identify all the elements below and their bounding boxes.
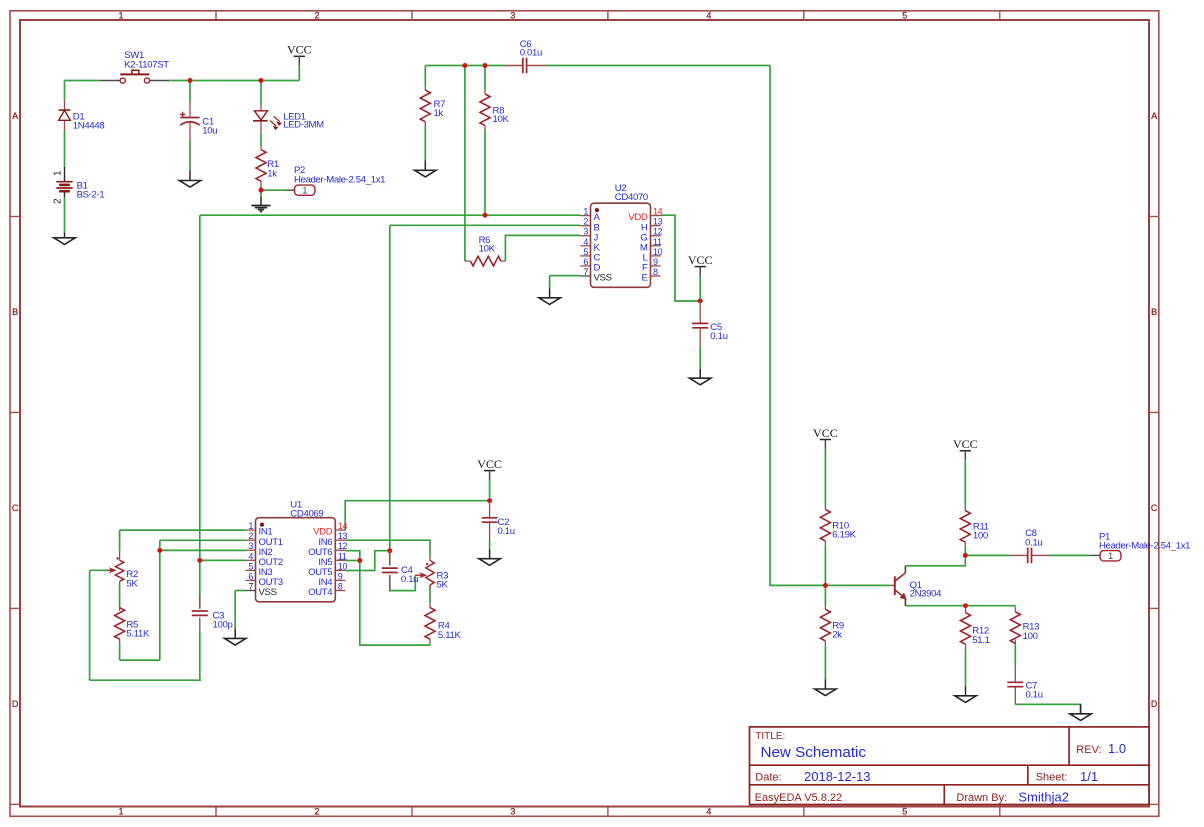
svg-text:5.11K: 5.11K: [126, 629, 150, 640]
power flag VCC (R11): [953, 437, 978, 460]
wire U1 IN2 (pin3): [160, 549, 246, 551]
resistor R10: [820, 507, 830, 546]
wire C7 bottom to ground: [1015, 704, 1080, 713]
resistor R6: [465, 256, 506, 266]
svg-text:VSS: VSS: [259, 587, 277, 598]
label SW1: [124, 50, 169, 70]
svg-text:VCC: VCC: [688, 253, 713, 267]
ground under U1 VSS: [225, 629, 246, 645]
svg-text:E: E: [641, 273, 647, 284]
connector P2: [286, 185, 315, 196]
wire x359.8 riser to R4 bottom: [360, 561, 430, 646]
ground under R7: [415, 160, 436, 177]
pin 11 (IN5): [318, 551, 346, 568]
pin 4 (OUT2): [245, 551, 282, 568]
pin 10 (OUT5): [308, 561, 347, 578]
wire VCC2 node to U1 VDD: [345, 501, 489, 530]
wire bottom link y680.2: [90, 679, 201, 681]
label R9: [832, 620, 844, 640]
pin 7 (VSS): [245, 582, 276, 599]
capacitor C7: [1007, 665, 1023, 704]
wire C4 bottom to R3 wiper: [390, 575, 416, 591]
svg-text:Header-Male-2.54_1x1: Header-Male-2.54_1x1: [294, 174, 385, 185]
junction (700.2,301): [698, 299, 703, 304]
wire C6 right to riser: [545, 65, 770, 67]
svg-text:CD4070: CD4070: [615, 192, 648, 203]
svg-text:1: 1: [302, 186, 307, 196]
pin 6 (OUT3): [245, 571, 282, 588]
pin 6 (D): [580, 257, 600, 274]
svg-text:6: 6: [583, 257, 588, 267]
svg-text:New Schematic: New Schematic: [761, 744, 867, 761]
svg-text:1: 1: [1108, 551, 1113, 561]
wire R9 top: [824, 585, 826, 605]
svg-text:2N3904: 2N3904: [910, 589, 943, 600]
junction (190,80.5): [188, 78, 193, 83]
pin 3 (J): [580, 227, 598, 244]
label R7: [434, 99, 446, 119]
svg-text:2: 2: [248, 531, 253, 541]
svg-text:5K: 5K: [126, 578, 138, 589]
pin 1 (IN1): [245, 521, 272, 538]
junction (965.5,605.7): [963, 603, 968, 608]
resistor R1: [256, 147, 266, 186]
svg-text:A: A: [1151, 111, 1157, 121]
pin 10 (L): [643, 247, 663, 264]
power flag VCC (R10): [813, 426, 838, 449]
capacitor C8: [1010, 548, 1049, 564]
capacitor C2: [482, 501, 498, 540]
switch SW1: [99, 70, 169, 83]
wire R6 left riser: [464, 66, 466, 262]
wire C1 column: [189, 81, 191, 171]
junction (485,215.2): [483, 213, 488, 218]
svg-text:K2-1107ST: K2-1107ST: [124, 59, 169, 70]
wire C8 right to P1: [1050, 554, 1090, 556]
svg-text:5: 5: [902, 11, 907, 21]
power flag VCC (U2/C5): [688, 253, 713, 276]
wire x159.8 riser: [159, 540, 161, 660]
svg-text:1: 1: [118, 11, 123, 21]
potentiometer R3: [415, 540, 434, 589]
label C6: [520, 39, 542, 59]
svg-text:EasyEDA V5.8.22: EasyEDA V5.8.22: [755, 792, 842, 804]
capacitor C1: [180, 102, 200, 140]
wire node to ground: [260, 190, 262, 196]
svg-text:6.19K: 6.19K: [832, 530, 856, 541]
wire R8 bottom to A-net: [484, 130, 486, 216]
pin 2 (B): [580, 217, 599, 234]
svg-text:1/1: 1/1: [1080, 769, 1098, 784]
wire R7 column: [424, 66, 426, 161]
pin 8 (OUT4): [308, 582, 345, 599]
label C5: [710, 322, 727, 342]
wire net B (U2 pin2) y225.3: [390, 224, 581, 226]
svg-text:VCC: VCC: [953, 437, 978, 451]
label U1: [290, 499, 323, 519]
wire B1 to ground: [64, 197, 66, 232]
svg-text:4: 4: [706, 807, 711, 817]
potentiometer R2: [107, 551, 124, 584]
wire VCC2 stem: [489, 480, 491, 500]
battery B1: [56, 167, 72, 197]
wire U1 IN6 (pin13): [345, 540, 430, 557]
svg-text:C: C: [12, 503, 19, 513]
IC U2 CD4070: [580, 203, 662, 287]
svg-text:10: 10: [653, 247, 663, 257]
resistor R5: [115, 607, 125, 643]
label P2: [294, 165, 385, 185]
wire C4 column: [389, 551, 391, 566]
label C3: [213, 610, 233, 630]
wire R6 right to U2 pin3: [505, 235, 580, 261]
svg-text:0.01u: 0.01u: [520, 47, 542, 58]
svg-text:4: 4: [706, 11, 711, 21]
label R10: [832, 520, 856, 540]
wire VCC4 stem: [964, 461, 966, 507]
junction (489.6,500.7): [487, 498, 492, 503]
wire U1 OUT5 (pin10): [345, 551, 389, 571]
pin 11 (M): [640, 237, 662, 254]
connector P1: [1089, 551, 1121, 561]
wire R4 bottom lead: [429, 643, 431, 645]
junction (485,65.5): [483, 63, 488, 68]
resistor R11: [960, 507, 970, 547]
svg-text:1.0: 1.0: [1108, 741, 1126, 756]
wire VCC5 stem: [699, 276, 701, 301]
svg-text:0.1u: 0.1u: [1025, 537, 1042, 548]
wire R9 bottom: [824, 646, 826, 679]
wire D1 to B1: [64, 130, 66, 167]
ground under B1: [54, 232, 75, 244]
LED LED1: [253, 104, 281, 134]
wire VCC3 stem: [824, 449, 826, 506]
svg-text:2: 2: [314, 11, 319, 21]
junction (261,190.2): [259, 188, 264, 193]
svg-text:10K: 10K: [479, 244, 496, 255]
svg-text:0.1u: 0.1u: [1026, 690, 1043, 701]
label R3: [437, 570, 449, 590]
wire riser x389.8: [389, 225, 391, 550]
wire out node down to collector: [905, 555, 965, 565]
label B1 pin 2: [53, 198, 64, 204]
power flag VCC (U1/C2): [477, 457, 502, 480]
wire R5 leads: [119, 584, 121, 660]
svg-text:Drawn By:: Drawn By:: [956, 792, 1007, 804]
svg-text:A: A: [12, 111, 18, 121]
pin 9 (IN4): [318, 571, 345, 588]
label R1: [267, 159, 279, 180]
svg-text:3: 3: [510, 11, 515, 21]
svg-text:10u: 10u: [202, 126, 217, 137]
power flag VCC (top rail): [287, 43, 312, 66]
svg-text:1: 1: [248, 521, 253, 531]
svg-text:1k: 1k: [434, 108, 444, 119]
svg-text:2k: 2k: [832, 630, 842, 641]
wire R10 bottom to base node: [824, 546, 826, 586]
svg-text:VCC: VCC: [477, 457, 502, 471]
wire U1 IN5 (pin11): [345, 560, 359, 562]
svg-text:D: D: [1151, 699, 1158, 709]
svg-text:100: 100: [1023, 631, 1038, 642]
svg-text:100p: 100p: [213, 620, 233, 631]
wire D1 top lead to rail: [64, 81, 66, 101]
label LED1: [283, 111, 324, 130]
svg-text:Header-Male-2.54_1x1: Header-Male-2.54_1x1: [1099, 541, 1190, 552]
wire VCC top rail y80.5: [65, 80, 300, 82]
svg-text:Smithja2: Smithja2: [1018, 789, 1069, 804]
wire R1 bottom to node: [260, 186, 262, 190]
svg-text:1k: 1k: [267, 169, 277, 180]
capacitor C3: [192, 560, 208, 631]
svg-text:1: 1: [53, 170, 64, 176]
pin 3 (IN2): [245, 541, 272, 558]
pin 1 (A): [580, 207, 600, 224]
svg-text:1: 1: [583, 207, 588, 217]
junction (464.9,65.5): [462, 63, 467, 68]
svg-text:3: 3: [248, 541, 253, 551]
svg-text:B: B: [1151, 307, 1157, 317]
svg-text:100: 100: [973, 531, 988, 542]
resistor R13: [1010, 608, 1020, 644]
svg-text:VSS: VSS: [594, 273, 612, 284]
junction (389.8,550.7): [387, 548, 392, 553]
svg-text:TITLE:: TITLE:: [755, 731, 785, 742]
wire riser x770 down to Q1 base: [770, 66, 889, 586]
wire U2 VDD to VCC node: [661, 215, 701, 301]
svg-text:Date:: Date:: [755, 772, 781, 784]
label C8: [1025, 528, 1042, 548]
wire U1 VSS: [235, 591, 245, 630]
wire R13 column: [1014, 606, 1016, 665]
label U2: [615, 183, 648, 203]
svg-text:2: 2: [583, 217, 588, 227]
pin 5 (C): [580, 247, 600, 264]
svg-text:5K: 5K: [437, 580, 449, 591]
ground right of C7: [1070, 704, 1091, 720]
svg-text:11: 11: [338, 551, 347, 561]
wire R11 bottom to out node: [964, 547, 966, 556]
wire LED1 column: [260, 81, 262, 147]
svg-text:5: 5: [583, 247, 588, 257]
svg-text:OUT4: OUT4: [308, 587, 333, 598]
wire U1 IN1 (pin1): [120, 529, 246, 531]
svg-text:9: 9: [653, 257, 658, 267]
diode D1: [59, 100, 71, 130]
svg-text:5.11K: 5.11K: [438, 630, 462, 641]
svg-text:51.1: 51.1: [972, 635, 989, 646]
svg-text:D: D: [12, 699, 19, 709]
pin 8 (E): [641, 267, 660, 284]
svg-text:0.1u: 0.1u: [498, 526, 515, 537]
title block: [750, 727, 1150, 805]
label P1: [1099, 531, 1190, 551]
wire U1 OUT1 (pin2): [160, 539, 246, 541]
pin 14 (VDD): [628, 207, 662, 224]
wire R2 top riser: [119, 530, 121, 551]
label R4: [438, 621, 462, 641]
label D1: [73, 111, 105, 131]
svg-text:13: 13: [338, 531, 348, 541]
svg-text:LED-3MM: LED-3MM: [283, 120, 324, 131]
wire R8 column top: [484, 66, 486, 91]
label B1: [77, 180, 105, 200]
pin 13 (H): [641, 217, 663, 234]
ground under U2 VSS: [539, 289, 560, 305]
svg-text:2: 2: [53, 198, 64, 204]
label Q1: [910, 580, 943, 600]
label R11: [973, 522, 989, 542]
pin 12 (OUT6): [308, 541, 347, 558]
label R5: [126, 619, 150, 639]
svg-text:6: 6: [248, 571, 253, 581]
wire R2 wiper feed: [90, 569, 108, 571]
pin 4 (K): [580, 237, 600, 254]
junction (359.8,560.5): [357, 558, 362, 563]
wire R3 column: [429, 585, 431, 603]
resistor R9: [820, 606, 830, 646]
svg-text:Sheet:: Sheet:: [1036, 772, 1068, 784]
svg-text:2018-12-13: 2018-12-13: [804, 769, 871, 784]
svg-text:REV:: REV:: [1076, 744, 1101, 756]
capacitor C5: [692, 301, 708, 346]
pin 13 (IN6): [318, 531, 347, 548]
svg-text:3: 3: [510, 807, 515, 817]
IC U1 CD4069: [245, 518, 347, 602]
junction (825.4,585.4): [823, 583, 828, 588]
svg-text:7: 7: [583, 267, 588, 277]
wire C3 column: [199, 560, 201, 680]
svg-text:1: 1: [118, 807, 123, 817]
wire riser x199.8: [199, 215, 201, 560]
svg-text:VCC: VCC: [813, 426, 838, 440]
wire U1 OUT2 (pin4): [200, 559, 246, 561]
svg-text:10K: 10K: [493, 114, 510, 125]
label B1 pin 1: [53, 170, 64, 176]
pin 14 (VDD): [313, 521, 347, 538]
capacitor C4: [382, 551, 398, 591]
wire node to P2: [261, 189, 286, 191]
wire net A (U2 pin1) y215.2: [200, 214, 581, 216]
resistor R12: [961, 606, 971, 649]
pin 7 (VSS): [580, 267, 611, 284]
svg-text:4: 4: [248, 551, 253, 561]
wire U1 OUT6 (pin12): [345, 551, 359, 561]
ground under R12: [955, 686, 976, 702]
wire out node to C8: [965, 554, 1010, 556]
wire R5 bottom link: [120, 659, 160, 661]
pin 9 (F): [642, 257, 661, 274]
svg-text:12: 12: [653, 227, 663, 237]
label R13: [1023, 622, 1040, 642]
svg-text:8: 8: [653, 267, 658, 277]
svg-text:C: C: [1151, 503, 1158, 513]
wire top net y65.5: [425, 65, 504, 67]
label R6: [479, 235, 496, 255]
label C4: [401, 565, 418, 585]
svg-text:VCC: VCC: [287, 43, 312, 57]
svg-text:2: 2: [314, 807, 319, 817]
svg-text:12: 12: [338, 541, 348, 551]
ground under C1: [179, 171, 200, 188]
resistor R7: [420, 86, 430, 125]
wire R12 bottom: [965, 649, 967, 686]
svg-text:8: 8: [338, 582, 343, 592]
svg-text:14: 14: [338, 521, 348, 531]
capacitor C6: [505, 58, 545, 74]
svg-text:7: 7: [248, 582, 253, 592]
resistor R4: [425, 603, 435, 643]
label R12: [972, 625, 989, 646]
ground under C5: [690, 369, 711, 385]
ground under C2: [479, 549, 500, 565]
label R8: [493, 105, 510, 125]
pin 12 (G): [640, 227, 662, 244]
junction (159.8,550.4): [157, 548, 162, 553]
wire C5 bottom: [699, 346, 701, 369]
svg-text:9: 9: [338, 571, 343, 581]
svg-text:1N4448: 1N4448: [73, 120, 105, 131]
label C7: [1026, 680, 1043, 700]
wire collector riser: [904, 566, 906, 573]
svg-text:4: 4: [583, 237, 588, 247]
svg-text:11: 11: [653, 237, 662, 247]
wire U2 VSS: [550, 276, 581, 289]
wire x89.6 riser: [89, 570, 91, 680]
svg-text:13: 13: [653, 217, 663, 227]
svg-text:10: 10: [338, 561, 348, 571]
svg-text:3: 3: [583, 227, 588, 237]
earth ground under R1/P2 node: [251, 197, 270, 212]
svg-text:CD4069: CD4069: [290, 508, 323, 519]
pin 5 (IN3): [245, 561, 272, 578]
transistor Q1: [889, 566, 906, 606]
wire VCC1 stem: [298, 66, 300, 80]
junction (199.8,560.4): [197, 558, 202, 563]
svg-text:0.1u: 0.1u: [710, 331, 727, 342]
svg-text:14: 14: [653, 207, 663, 217]
label C1: [202, 116, 217, 136]
svg-text:B: B: [12, 307, 18, 317]
wire emitter row: [905, 599, 1015, 606]
label C2: [498, 517, 515, 537]
wire C2 bottom: [489, 540, 491, 549]
resistor R8: [480, 90, 490, 130]
svg-text:BS-2-1: BS-2-1: [77, 190, 105, 201]
pin 2 (OUT1): [245, 531, 282, 548]
svg-text:5: 5: [248, 561, 253, 571]
junction (965.3,555.4): [963, 553, 968, 558]
label R2: [126, 569, 138, 589]
junction (261,80.5): [259, 78, 264, 83]
svg-text:5: 5: [902, 807, 907, 817]
ground under R9: [815, 679, 836, 695]
